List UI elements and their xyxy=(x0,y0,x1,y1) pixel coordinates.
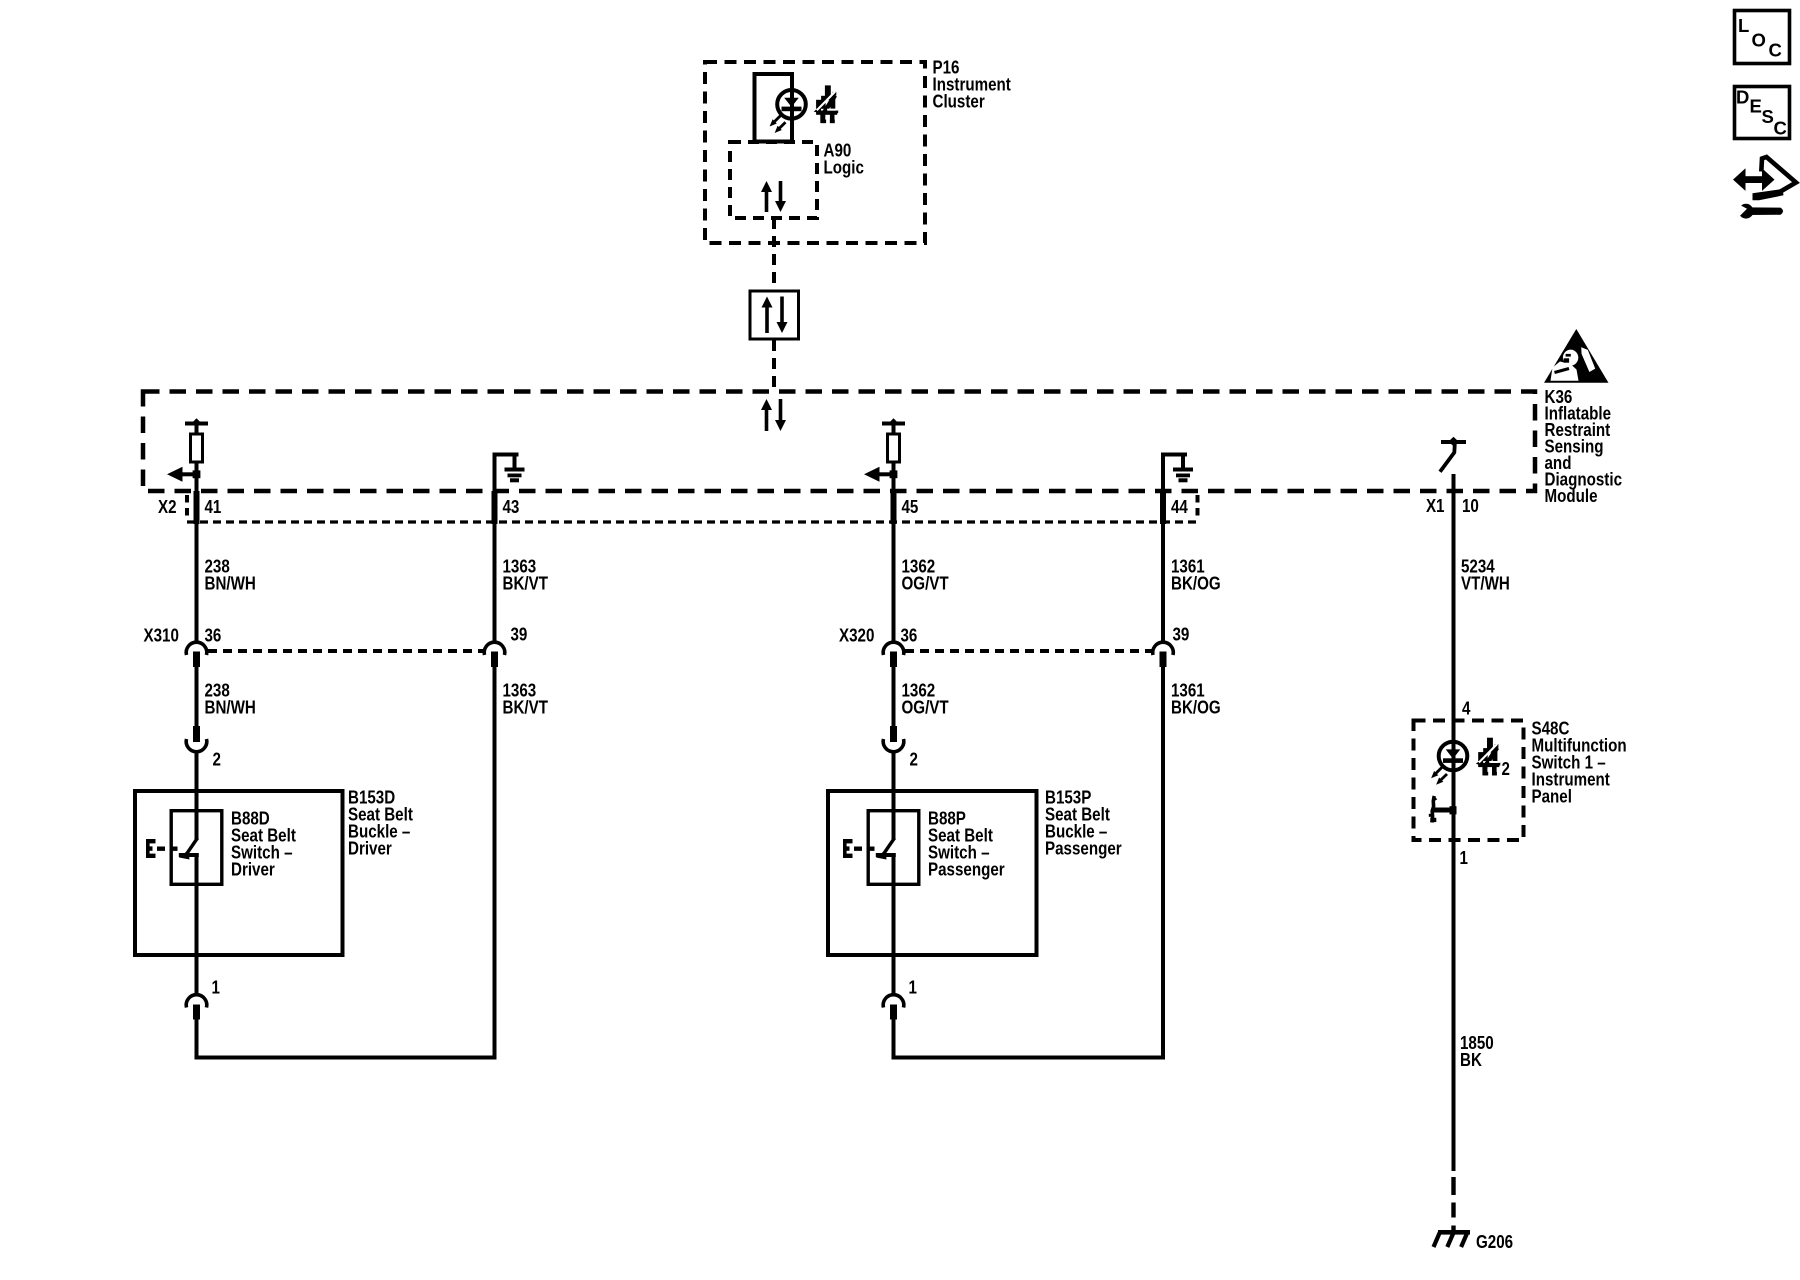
bottom wire driver loop xyxy=(195,1056,497,1060)
wire pin1 to ground loop (passenger) xyxy=(892,1020,896,1060)
svg-text:BN/WH: BN/WH xyxy=(205,573,256,594)
svg-text:X310: X310 xyxy=(144,625,179,646)
pin 43 stub xyxy=(492,491,498,524)
wire pin1 to ground loop (driver) xyxy=(195,1020,199,1060)
wire 1361 BK/OG upper segment xyxy=(1161,524,1165,642)
S48C multifunction switch box xyxy=(1414,721,1524,841)
svg-text:44: 44 xyxy=(1171,497,1188,518)
connector pin 1 (driver) xyxy=(186,995,207,1008)
X310 pin 39 socket xyxy=(484,642,505,655)
wire through S48C xyxy=(1452,721,1456,841)
wire (dashed) cluster to serial data symbol xyxy=(772,218,776,290)
svg-text:39: 39 xyxy=(511,624,528,645)
connector pin 1 (passenger) xyxy=(883,995,904,1008)
svg-text:2: 2 xyxy=(213,749,221,770)
internal ground, pin 44 xyxy=(1161,453,1165,492)
svg-text:C: C xyxy=(1774,117,1787,138)
svg-text:X320: X320 xyxy=(839,625,874,646)
svg-text:BN/WH: BN/WH xyxy=(205,697,256,718)
svg-text:OG/VT: OG/VT xyxy=(902,573,950,594)
wire pin 41 xyxy=(195,464,199,492)
switch blade (passenger) xyxy=(883,838,895,856)
svg-text:Cluster: Cluster xyxy=(933,91,986,112)
svg-text:G206: G206 xyxy=(1476,1232,1513,1253)
signal arrow pin 45 xyxy=(864,467,880,482)
seat belt icon (cluster) xyxy=(814,85,839,123)
wire X1 pin 10 xyxy=(1452,474,1456,721)
wire 1362 OG/VT upper segment xyxy=(892,524,896,642)
svg-text:Passenger: Passenger xyxy=(928,859,1005,880)
switch blade (driver) xyxy=(186,838,198,856)
mechanical linkage E (passenger) xyxy=(843,839,847,858)
svg-text:X2: X2 xyxy=(158,497,177,518)
wire 238 BN/WH lower segment xyxy=(195,667,199,727)
svg-text:36: 36 xyxy=(901,625,918,646)
signal arrow pin 41 xyxy=(167,467,183,482)
wire 1363 BK/VT lower segment xyxy=(493,667,497,1060)
wire (dashed) serial data symbol to K36 xyxy=(772,340,776,391)
terminal bar pin 45 xyxy=(882,422,905,426)
svg-text:OG/VT: OG/VT xyxy=(902,697,950,718)
X320 pin 36 socket xyxy=(883,642,904,655)
svg-text:Module: Module xyxy=(1545,486,1598,507)
svg-text:36: 36 xyxy=(205,625,222,646)
X310 pin 36 socket xyxy=(186,642,207,655)
pin 41 stub xyxy=(194,491,200,524)
svg-text:Panel: Panel xyxy=(1532,786,1572,807)
svg-text:10: 10 xyxy=(1462,496,1479,517)
svg-text:1: 1 xyxy=(1460,848,1468,869)
svg-text:2: 2 xyxy=(1502,759,1510,780)
svg-text:4: 4 xyxy=(1462,698,1471,719)
X320 dotted line xyxy=(905,649,1153,653)
svg-text:O: O xyxy=(1752,29,1766,50)
bottom wire passenger loop xyxy=(892,1056,1166,1060)
X2 connector dotted line xyxy=(187,520,1199,523)
warning triangle xyxy=(1544,329,1609,383)
svg-text:1: 1 xyxy=(909,977,917,998)
serial data arrows in A90 xyxy=(761,181,772,192)
navigation arrows + wrench icon xyxy=(1733,157,1797,219)
switch contact symbol (S48C) xyxy=(1432,808,1456,813)
wire 238 BN/WH upper segment xyxy=(195,524,199,642)
svg-text:D: D xyxy=(1736,87,1749,108)
svg-text:Driver: Driver xyxy=(348,838,392,859)
indicator lamp housing xyxy=(755,74,793,142)
DESC box xyxy=(1735,87,1790,139)
serial data arrows in box xyxy=(762,297,773,308)
K36 internal switch to X1-10 xyxy=(1441,440,1466,444)
connector pin 2 (driver) xyxy=(193,726,200,742)
svg-text:S: S xyxy=(1762,106,1774,127)
svg-text:Passenger: Passenger xyxy=(1045,838,1122,859)
wire pin2 to switch (passenger) xyxy=(892,753,896,841)
svg-text:Driver: Driver xyxy=(231,859,275,880)
svg-text:Logic: Logic xyxy=(824,157,864,178)
svg-text:L: L xyxy=(1738,15,1749,36)
svg-text:BK: BK xyxy=(1460,1050,1483,1071)
svg-text:1: 1 xyxy=(212,977,220,998)
svg-text:VT/WH: VT/WH xyxy=(1461,573,1510,594)
internal ground, pin 43 xyxy=(493,453,497,492)
instrument cluster P16 box xyxy=(705,62,925,243)
seat belt buckle box B153D xyxy=(135,791,343,955)
logic block A90 box xyxy=(730,142,817,218)
serial data symbol box xyxy=(750,291,799,339)
svg-text:BK/VT: BK/VT xyxy=(503,697,549,718)
resistor (seat belt sense, pin 41) xyxy=(191,434,203,462)
seat belt switch box B88D xyxy=(171,811,222,885)
svg-text:41: 41 xyxy=(205,497,222,518)
resistor (seat belt sense, pin 45) xyxy=(888,434,900,462)
X2 separator right xyxy=(1196,495,1200,518)
X310 dotted line xyxy=(208,649,484,653)
terminal bar pin 41 xyxy=(185,422,208,426)
mechanical linkage E (driver) xyxy=(146,839,150,858)
wire 1363 BK/VT upper segment xyxy=(493,524,497,642)
wire (dashed) to G206 xyxy=(1451,1177,1455,1195)
wire 1361 BK/OG lower segment xyxy=(1161,667,1165,1060)
svg-text:39: 39 xyxy=(1173,624,1190,645)
X320 pin 39 socket xyxy=(1153,642,1174,655)
X2 separator left xyxy=(185,495,189,518)
seat belt icon (S48C) xyxy=(1476,738,1501,776)
LOC box xyxy=(1735,11,1790,64)
seat belt buckle box B153P xyxy=(828,791,1037,955)
connector pin 2 (passenger) xyxy=(890,726,897,742)
svg-text:2: 2 xyxy=(910,749,918,770)
pin 45 stub xyxy=(891,491,897,524)
K36 inflatable restraint sensing and diagnostic module box xyxy=(143,392,1535,492)
svg-text:C: C xyxy=(1769,40,1782,61)
wire pin2 to switch (driver) xyxy=(195,753,199,841)
svg-text:E: E xyxy=(1750,95,1762,116)
wire pin 45 xyxy=(892,464,896,492)
wire switch to pin 1 (driver) xyxy=(195,855,199,994)
pin 44 stub xyxy=(1160,491,1166,524)
wire 1362 OG/VT lower segment xyxy=(892,667,896,727)
indicator LED xyxy=(777,90,806,119)
wire 1850 BK xyxy=(1452,840,1456,1171)
svg-text:X1: X1 xyxy=(1426,496,1445,517)
svg-text:BK/OG: BK/OG xyxy=(1171,573,1221,594)
indicator LED (S48C) xyxy=(1439,742,1468,771)
svg-text:43: 43 xyxy=(503,497,520,518)
ground G206 symbol xyxy=(1438,1230,1470,1235)
svg-text:45: 45 xyxy=(902,497,919,518)
serial data arrows inside K36 xyxy=(761,399,772,410)
wire switch to pin 1 (passenger) xyxy=(892,855,896,994)
svg-text:BK/OG: BK/OG xyxy=(1171,697,1221,718)
svg-text:BK/VT: BK/VT xyxy=(503,573,549,594)
seat belt switch box B88P xyxy=(868,811,919,885)
